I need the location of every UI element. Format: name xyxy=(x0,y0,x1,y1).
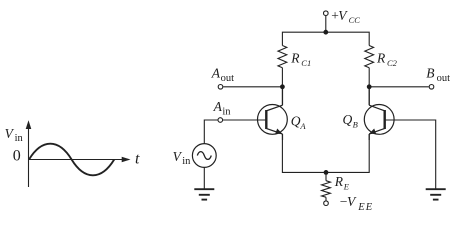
svg-text:Q: Q xyxy=(291,114,301,129)
svg-text:out: out xyxy=(437,73,451,84)
svg-text:A: A xyxy=(213,99,223,114)
svg-text:CC: CC xyxy=(349,15,361,25)
svg-text:R: R xyxy=(376,51,386,66)
svg-text:E: E xyxy=(343,182,350,192)
svg-text:V: V xyxy=(347,194,357,209)
svg-text:R: R xyxy=(334,174,344,189)
svg-text:R: R xyxy=(290,51,300,66)
svg-text:EE: EE xyxy=(357,202,373,213)
svg-text:in: in xyxy=(15,133,24,144)
svg-text:B: B xyxy=(353,120,358,130)
svg-text:A: A xyxy=(211,65,221,80)
svg-text:C2: C2 xyxy=(387,58,398,68)
svg-text:C1: C1 xyxy=(301,58,311,68)
svg-text:B: B xyxy=(426,65,434,80)
svg-text:in: in xyxy=(222,106,231,117)
svg-text:V: V xyxy=(5,126,15,141)
svg-text:Q: Q xyxy=(343,112,353,127)
svg-text:0: 0 xyxy=(13,147,21,164)
svg-text:in: in xyxy=(182,156,191,167)
svg-text:out: out xyxy=(221,73,235,84)
svg-text:V: V xyxy=(338,8,348,23)
svg-text:A: A xyxy=(299,121,306,131)
svg-text:V: V xyxy=(173,149,183,164)
svg-text:t: t xyxy=(135,150,140,167)
